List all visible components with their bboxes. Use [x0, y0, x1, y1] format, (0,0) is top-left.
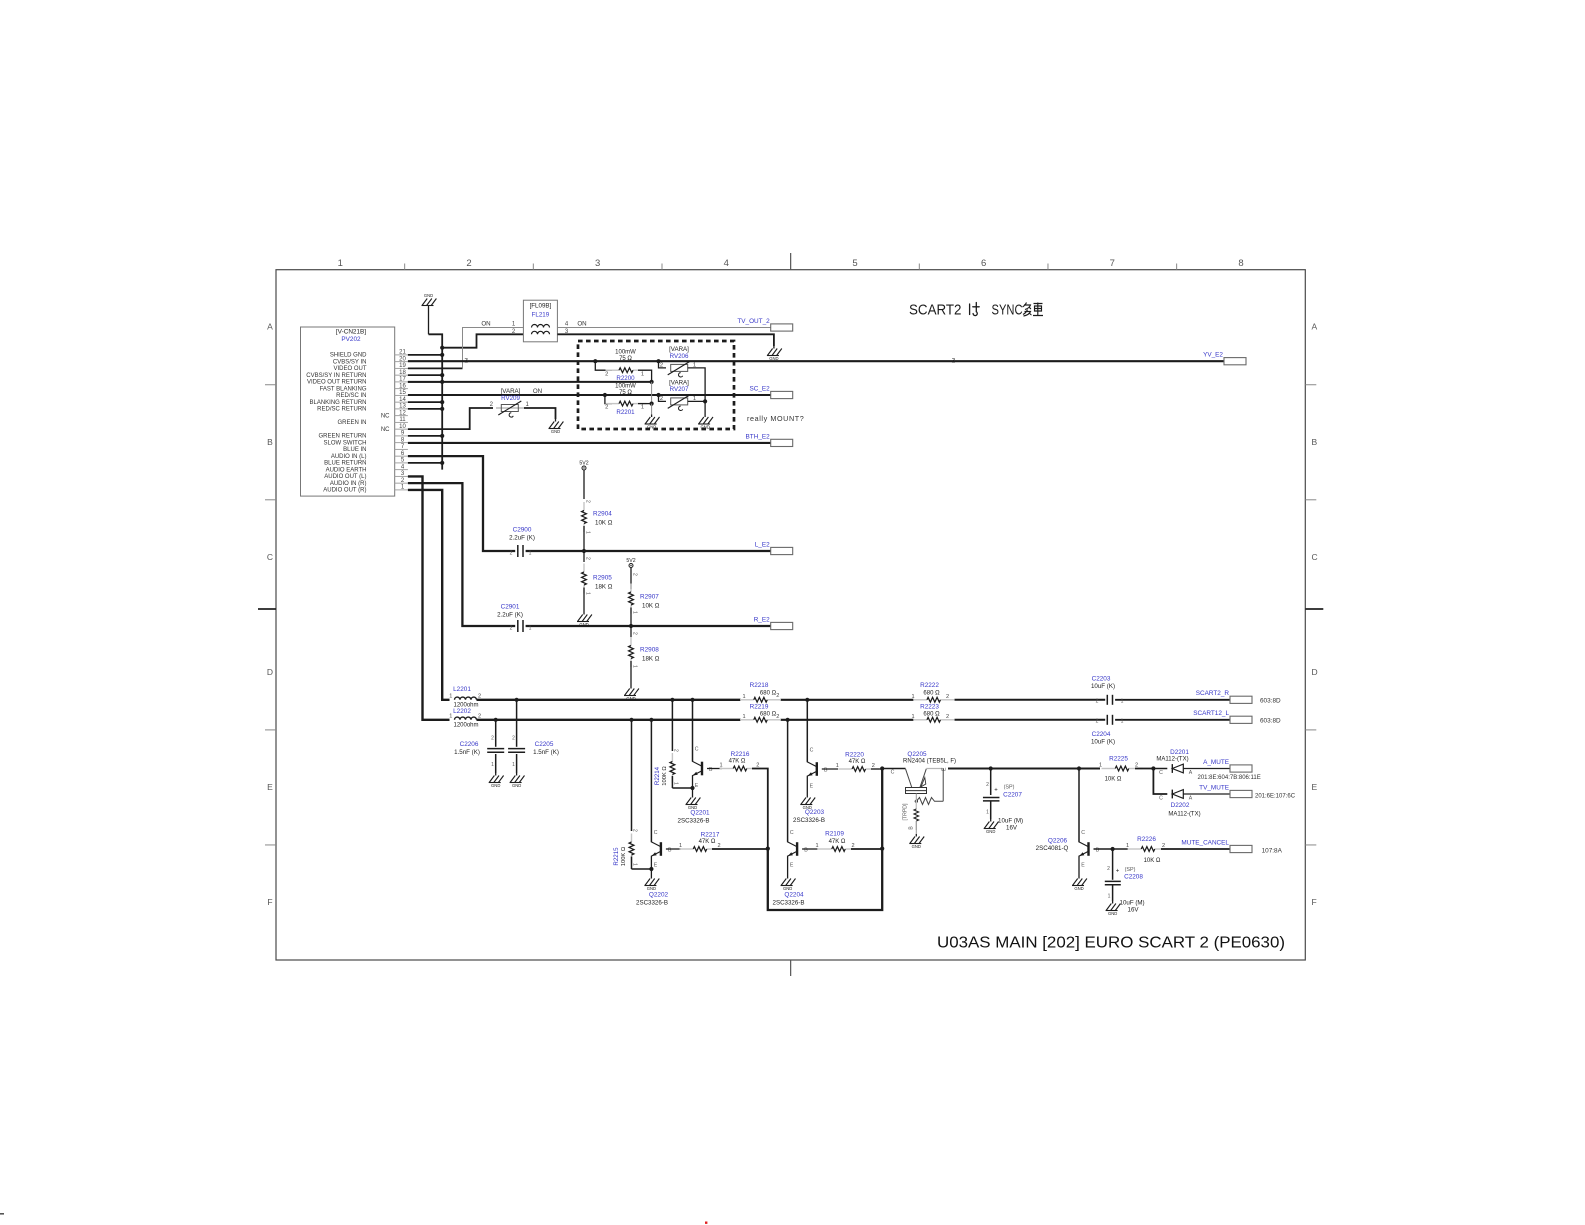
svg-text:Q2202: Q2202 — [649, 892, 669, 899]
svg-text:B: B — [909, 826, 915, 830]
svg-text:2: 2 — [585, 500, 591, 503]
svg-text:1: 1 — [742, 694, 745, 700]
svg-text:YV_E2: YV_E2 — [1203, 352, 1223, 359]
svg-text:really MOUNT?: really MOUNT? — [747, 414, 804, 423]
svg-text:RV206: RV206 — [670, 353, 689, 360]
svg-text:BLUE IN: BLUE IN — [343, 447, 366, 453]
svg-text:1: 1 — [673, 782, 679, 785]
svg-text:Q2203: Q2203 — [805, 809, 825, 816]
svg-text:2: 2 — [946, 694, 949, 700]
svg-text:10: 10 — [399, 424, 406, 430]
svg-text:R2201: R2201 — [616, 409, 635, 416]
svg-text:NC: NC — [381, 427, 390, 433]
svg-text:RN2404 (TEB5L, F): RN2404 (TEB5L, F) — [903, 759, 956, 765]
svg-text:R2214: R2214 — [654, 766, 661, 785]
svg-text:R2219: R2219 — [750, 703, 769, 710]
svg-text:GND: GND — [647, 425, 656, 430]
svg-text:1: 1 — [742, 714, 745, 720]
svg-text:BTH_E2: BTH_E2 — [746, 433, 771, 440]
svg-text:1: 1 — [1126, 843, 1129, 849]
svg-text:A: A — [1312, 322, 1318, 332]
svg-text:18K Ω: 18K Ω — [595, 584, 613, 591]
svg-text:C: C — [1159, 770, 1163, 776]
svg-text:603:8D: 603:8D — [1260, 697, 1281, 704]
svg-text:D2202: D2202 — [1171, 802, 1190, 809]
svg-text:SCART2_R: SCART2_R — [1196, 690, 1230, 697]
svg-text:GND: GND — [1074, 886, 1083, 891]
svg-text:E: E — [267, 782, 273, 792]
svg-text:C2207: C2207 — [1003, 792, 1022, 799]
svg-text:[TRPD]: [TRPD] — [903, 803, 909, 821]
svg-text:680 Ω: 680 Ω — [923, 690, 940, 696]
svg-text:75 Ω: 75 Ω — [619, 356, 632, 362]
svg-text:RED/SC RETURN: RED/SC RETURN — [317, 407, 366, 413]
svg-text:RV209: RV209 — [501, 395, 520, 402]
svg-text:GREEN IN: GREEN IN — [337, 420, 366, 426]
svg-text:C2900: C2900 — [513, 527, 532, 534]
svg-text:Q2201: Q2201 — [690, 810, 710, 817]
svg-text:6: 6 — [981, 258, 986, 269]
svg-text:SYNC: SYNC — [992, 302, 1023, 319]
svg-text:NC: NC — [381, 413, 390, 419]
svg-text:L_E2: L_E2 — [755, 541, 770, 548]
svg-text:AUDIO EARTH: AUDIO EARTH — [326, 467, 367, 473]
svg-text:1: 1 — [836, 763, 839, 769]
svg-text:SHIELD GND: SHIELD GND — [330, 353, 367, 359]
svg-text:GND: GND — [783, 886, 792, 891]
svg-text:E: E — [654, 863, 658, 869]
svg-text:PV202: PV202 — [341, 336, 361, 343]
svg-text:Q2205: Q2205 — [907, 751, 927, 758]
svg-text:2: 2 — [632, 573, 638, 576]
svg-text:15: 15 — [399, 390, 406, 396]
svg-text:10K Ω: 10K Ω — [642, 603, 660, 610]
svg-text:47K Ω: 47K Ω — [699, 839, 716, 845]
svg-text:2: 2 — [673, 749, 679, 752]
svg-text:1: 1 — [1108, 894, 1111, 900]
svg-text:C: C — [267, 552, 273, 562]
svg-text:ON: ON — [577, 321, 586, 328]
svg-text:2: 2 — [1096, 719, 1099, 725]
svg-text:1: 1 — [338, 258, 343, 269]
svg-text:680 Ω: 680 Ω — [923, 711, 940, 717]
svg-text:GREEN RETURN: GREEN RETURN — [318, 434, 366, 440]
svg-text:CVBS/SY IN RETURN: CVBS/SY IN RETURN — [306, 373, 366, 379]
svg-text:C: C — [810, 748, 814, 754]
svg-text:10uF (M): 10uF (M) — [998, 818, 1023, 825]
svg-text:17: 17 — [399, 377, 406, 383]
svg-text:GND: GND — [912, 844, 921, 849]
svg-text:R2109: R2109 — [825, 830, 844, 837]
svg-text:2: 2 — [986, 782, 989, 788]
svg-text:z: z — [952, 356, 956, 365]
svg-text:18: 18 — [399, 370, 406, 376]
svg-text:1: 1 — [1099, 763, 1102, 769]
svg-text:R2223: R2223 — [920, 703, 939, 710]
svg-text:21: 21 — [399, 350, 406, 356]
svg-text:B: B — [1312, 437, 1318, 447]
svg-text:2: 2 — [512, 736, 515, 742]
svg-text:1: 1 — [529, 626, 532, 632]
svg-text:1: 1 — [512, 762, 515, 768]
svg-text:1: 1 — [1121, 719, 1124, 725]
svg-text:1: 1 — [911, 714, 914, 720]
svg-text:12: 12 — [399, 410, 406, 416]
svg-text:18K Ω: 18K Ω — [642, 656, 660, 663]
svg-text:2: 2 — [1096, 699, 1099, 705]
svg-text:R2215: R2215 — [613, 847, 620, 866]
svg-text:1: 1 — [719, 763, 722, 769]
svg-text:MUTE_CANCEL: MUTE_CANCEL — [1181, 839, 1229, 846]
svg-text:R2904: R2904 — [593, 511, 612, 518]
svg-text:1: 1 — [449, 694, 452, 700]
svg-text:2: 2 — [632, 829, 638, 832]
svg-text:2SC3326-B: 2SC3326-B — [636, 899, 668, 906]
svg-text:13: 13 — [399, 404, 406, 410]
svg-text:2: 2 — [776, 693, 779, 699]
svg-text:MA112-(TX): MA112-(TX) — [1168, 811, 1200, 817]
svg-text:2SC3326-B: 2SC3326-B — [678, 817, 710, 824]
svg-text:2.2uF (K): 2.2uF (K) — [509, 535, 535, 542]
svg-text:(SP): (SP) — [1125, 867, 1136, 873]
svg-text:680 Ω: 680 Ω — [760, 711, 777, 717]
svg-text:F: F — [267, 897, 272, 907]
svg-text:10K Ω: 10K Ω — [1105, 776, 1122, 782]
svg-text:R2220: R2220 — [845, 751, 864, 758]
svg-text:z: z — [464, 355, 468, 364]
svg-text:A: A — [1189, 795, 1193, 801]
svg-text:R2222: R2222 — [920, 682, 939, 689]
svg-text:GND: GND — [551, 429, 560, 434]
svg-text:1: 1 — [449, 714, 452, 720]
svg-text:11: 11 — [399, 417, 406, 423]
svg-text:7: 7 — [1110, 258, 1115, 269]
svg-text:2: 2 — [776, 714, 779, 720]
svg-text:1: 1 — [679, 843, 682, 849]
svg-text:2: 2 — [605, 405, 608, 411]
svg-text:R2217: R2217 — [701, 831, 720, 838]
svg-text:2SC4081-Q: 2SC4081-Q — [1036, 845, 1069, 852]
svg-text:AUDIO IN (L): AUDIO IN (L) — [331, 454, 367, 460]
svg-text:2: 2 — [605, 371, 608, 377]
svg-text:1: 1 — [815, 843, 818, 849]
svg-text:[V-CN21B]: [V-CN21B] — [336, 329, 366, 336]
svg-text:GND: GND — [579, 622, 588, 627]
svg-text:C: C — [695, 747, 699, 753]
svg-text:100K Ω: 100K Ω — [621, 846, 627, 866]
svg-text:C2208: C2208 — [1124, 874, 1143, 881]
svg-text:GND: GND — [986, 829, 995, 834]
svg-text:R2218: R2218 — [750, 682, 769, 689]
svg-text:1: 1 — [491, 762, 494, 768]
svg-text:680 Ω: 680 Ω — [760, 690, 777, 696]
svg-text:4: 4 — [724, 258, 729, 269]
svg-text:B: B — [267, 437, 273, 447]
svg-text:D: D — [267, 667, 273, 677]
svg-text:GND: GND — [1108, 911, 1117, 916]
svg-text:10K Ω: 10K Ω — [1144, 858, 1161, 864]
svg-text:D: D — [1312, 667, 1318, 677]
svg-text:R2905: R2905 — [593, 575, 612, 582]
svg-text:R_E2: R_E2 — [754, 616, 770, 623]
svg-text:201:6E:107:6C: 201:6E:107:6C — [1255, 793, 1296, 799]
svg-text:C2203: C2203 — [1092, 676, 1111, 683]
svg-text:A_MUTE: A_MUTE — [1203, 759, 1229, 766]
svg-text:1200ohm: 1200ohm — [453, 723, 478, 729]
svg-text:E: E — [1312, 782, 1318, 792]
svg-text:+: + — [994, 788, 998, 794]
svg-text:R2908: R2908 — [640, 647, 659, 654]
svg-text:AUDIO OUT (R): AUDIO OUT (R) — [323, 488, 366, 494]
svg-text:R2907: R2907 — [640, 594, 659, 601]
svg-text:R2225: R2225 — [1109, 755, 1128, 762]
svg-text:Q2204: Q2204 — [784, 892, 804, 899]
svg-text:U03AS MAIN [202] EURO SCART 2: U03AS MAIN [202] EURO SCART 2 (PE0630) — [937, 935, 1285, 952]
svg-text:E: E — [790, 863, 794, 869]
svg-text:100K Ω: 100K Ω — [662, 766, 668, 786]
svg-text:C2205: C2205 — [535, 741, 554, 748]
svg-text:1: 1 — [641, 371, 644, 377]
svg-text:16: 16 — [399, 383, 406, 389]
svg-text:1: 1 — [986, 810, 989, 816]
svg-text:GND: GND — [647, 886, 656, 891]
svg-text:1: 1 — [529, 551, 532, 557]
svg-text:C: C — [891, 770, 895, 776]
svg-text:FL219: FL219 — [532, 312, 550, 319]
svg-text:201:8E:604:7B:806:11E: 201:8E:604:7B:806:11E — [1198, 775, 1261, 781]
svg-text:2.2uF (K): 2.2uF (K) — [497, 612, 523, 619]
svg-text:+: + — [1116, 869, 1120, 875]
svg-text:Q2206: Q2206 — [1048, 838, 1068, 845]
svg-text:2: 2 — [491, 736, 494, 742]
svg-text:RV207: RV207 — [670, 386, 689, 393]
svg-text:1.5nF (K): 1.5nF (K) — [533, 749, 559, 756]
svg-text:2: 2 — [466, 258, 471, 269]
svg-text:R2200: R2200 — [616, 375, 635, 382]
svg-text:BLANKING RETURN: BLANKING RETURN — [309, 400, 366, 406]
svg-text:VIDEO OUT RETURN: VIDEO OUT RETURN — [307, 380, 367, 386]
svg-text:ON: ON — [481, 321, 490, 328]
svg-text:1: 1 — [585, 531, 591, 534]
svg-text:2: 2 — [946, 714, 949, 720]
svg-text:L2202: L2202 — [453, 708, 471, 715]
svg-text:2: 2 — [510, 626, 513, 632]
svg-text:1: 1 — [632, 665, 638, 668]
svg-text:1: 1 — [632, 863, 638, 866]
svg-text:8: 8 — [1238, 258, 1243, 269]
svg-text:D2201: D2201 — [1170, 749, 1189, 756]
svg-text:2: 2 — [660, 363, 663, 369]
svg-text:107:8A: 107:8A — [1262, 847, 1283, 854]
svg-text:A: A — [1189, 770, 1193, 776]
svg-text:2: 2 — [660, 396, 663, 402]
svg-text:SCART12_L: SCART12_L — [1193, 710, 1229, 717]
svg-text:10uF (K): 10uF (K) — [1091, 683, 1115, 690]
svg-text:1: 1 — [641, 405, 644, 411]
svg-text:16V: 16V — [1128, 907, 1140, 914]
svg-text:5: 5 — [852, 258, 857, 269]
svg-text:MA112-(TX): MA112-(TX) — [1156, 757, 1188, 763]
svg-text:2SC3326-B: 2SC3326-B — [773, 899, 805, 906]
svg-text:GND: GND — [512, 783, 521, 788]
svg-text:1: 1 — [526, 402, 530, 408]
svg-text:2SC3326-B: 2SC3326-B — [793, 817, 825, 824]
svg-text:10uF (K): 10uF (K) — [1091, 739, 1115, 746]
svg-text:47K Ω: 47K Ω — [729, 759, 746, 765]
svg-text:47K Ω: 47K Ω — [849, 759, 866, 765]
svg-text:AUDIO OUT (L): AUDIO OUT (L) — [324, 474, 366, 480]
svg-text:C2901: C2901 — [501, 604, 520, 611]
svg-text:3: 3 — [595, 258, 600, 269]
svg-text:2: 2 — [632, 632, 638, 635]
svg-text:1.5nF (K): 1.5nF (K) — [454, 749, 480, 756]
svg-text:VIDEO OUT: VIDEO OUT — [333, 366, 366, 372]
svg-text:SC_E2: SC_E2 — [749, 385, 770, 392]
svg-text:TV_OUT_2: TV_OUT_2 — [737, 318, 770, 325]
svg-text:75 Ω: 75 Ω — [619, 390, 632, 396]
svg-text:1: 1 — [585, 592, 591, 595]
svg-text:2: 2 — [1107, 866, 1110, 872]
svg-text:R2216: R2216 — [731, 751, 750, 758]
svg-text:FAST BLANKING: FAST BLANKING — [320, 386, 367, 392]
svg-text:[FL09B]: [FL09B] — [530, 303, 552, 310]
svg-text:BLUE RETURN: BLUE RETURN — [324, 461, 366, 467]
svg-text:C: C — [654, 830, 658, 836]
svg-text:RED/SC IN: RED/SC IN — [336, 393, 366, 399]
svg-text:[VARA]: [VARA] — [501, 388, 521, 395]
svg-text:C2204: C2204 — [1092, 731, 1111, 738]
svg-text:C: C — [790, 830, 794, 836]
svg-text:ON: ON — [533, 388, 542, 395]
svg-text:SCART2: SCART2 — [909, 302, 962, 319]
svg-text:100mW: 100mW — [615, 350, 636, 356]
svg-text:603:8D: 603:8D — [1260, 717, 1281, 724]
svg-text:2: 2 — [872, 763, 875, 769]
svg-text:CVBS/SY IN: CVBS/SY IN — [333, 359, 367, 365]
svg-text:E: E — [942, 767, 948, 771]
svg-text:GND: GND — [491, 783, 500, 788]
svg-text:2: 2 — [490, 402, 494, 408]
svg-text:1: 1 — [1121, 699, 1124, 705]
svg-text:C2206: C2206 — [460, 741, 479, 748]
svg-text:2: 2 — [585, 557, 591, 560]
svg-text:4: 4 — [565, 322, 569, 328]
svg-text:GND: GND — [424, 293, 433, 298]
svg-text:A: A — [267, 322, 273, 332]
svg-text:47K Ω: 47K Ω — [829, 839, 846, 845]
svg-text:2: 2 — [510, 551, 513, 557]
svg-text:F: F — [1312, 897, 1317, 907]
svg-text:GND: GND — [700, 425, 709, 430]
svg-text:E: E — [810, 784, 814, 790]
svg-text:1: 1 — [911, 694, 914, 700]
svg-text:16V: 16V — [1006, 825, 1018, 832]
svg-text:10K Ω: 10K Ω — [595, 520, 613, 527]
svg-text:TV_MUTE: TV_MUTE — [1199, 784, 1229, 791]
svg-text:1: 1 — [632, 611, 638, 614]
svg-text:E: E — [695, 783, 699, 789]
svg-text:(SP): (SP) — [1004, 785, 1015, 791]
svg-text:C: C — [1159, 795, 1163, 801]
svg-text:SLOW SWITCH: SLOW SWITCH — [324, 440, 367, 446]
svg-text:19: 19 — [399, 363, 406, 369]
svg-text:R2226: R2226 — [1137, 836, 1156, 843]
svg-text:L2201: L2201 — [453, 686, 471, 693]
svg-text:C: C — [1081, 830, 1085, 836]
svg-text:20: 20 — [399, 356, 406, 362]
svg-text:1: 1 — [512, 322, 516, 328]
svg-text:E: E — [1081, 863, 1085, 869]
svg-text:C: C — [1312, 552, 1318, 562]
svg-text:AUDIO IN (R): AUDIO IN (R) — [330, 481, 367, 487]
svg-text:100mW: 100mW — [615, 383, 636, 389]
svg-text:14: 14 — [399, 397, 406, 403]
